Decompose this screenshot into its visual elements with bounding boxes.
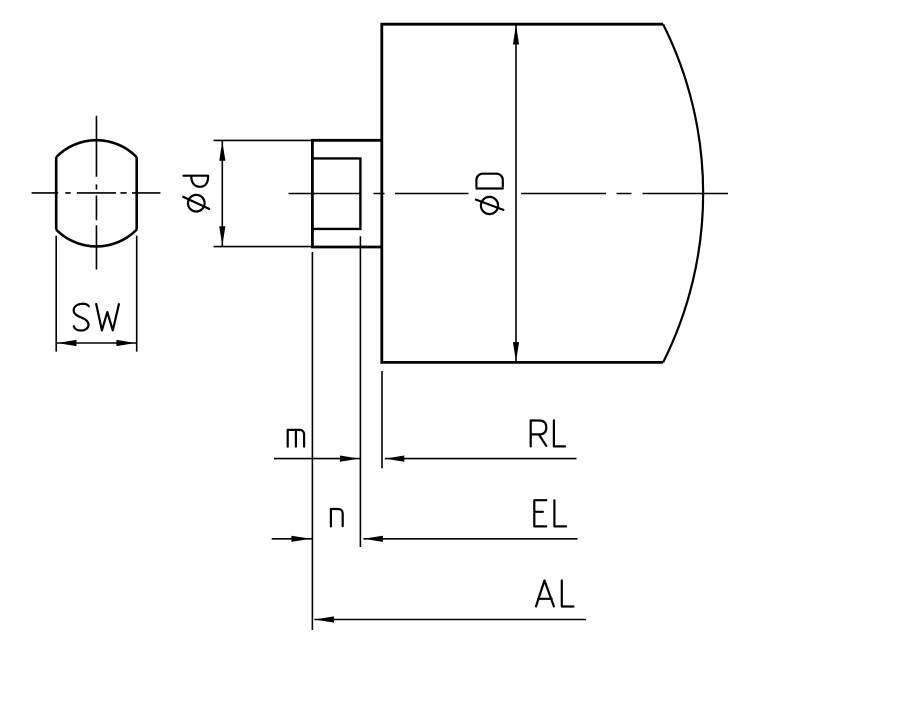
SW extension line left xyxy=(55,236,57,352)
EL arrow xyxy=(363,536,383,542)
label SW xyxy=(74,304,119,331)
dia d extension line top xyxy=(214,139,313,141)
EL dimension line xyxy=(363,538,577,540)
SW extension line right xyxy=(136,236,138,352)
extension line body face (RL/m) xyxy=(381,371,383,468)
AL arrow xyxy=(314,616,334,622)
m dimension line xyxy=(274,458,360,460)
hex end view right flat xyxy=(135,157,138,230)
SW arrow right xyxy=(116,340,135,346)
hex vertical centerline xyxy=(95,116,97,270)
hex end view top arc xyxy=(56,140,137,157)
label dia d (rotated) xyxy=(183,176,209,212)
extension line left face (AL) xyxy=(311,252,313,630)
hex horizontal centerline xyxy=(32,192,161,194)
n dimension line left xyxy=(272,538,313,540)
body outline xyxy=(382,24,663,362)
dia d arrow top xyxy=(219,141,225,161)
dia D arrow top xyxy=(513,25,519,45)
dia D arrow bottom xyxy=(513,342,519,362)
m arrow xyxy=(340,456,360,462)
dia D dimension line xyxy=(515,24,517,362)
dia d dimension line xyxy=(221,140,223,246)
AL dimension line xyxy=(314,619,586,621)
RL dimension line xyxy=(385,458,577,460)
hex end view bottom arc xyxy=(56,230,137,247)
SW arrow left xyxy=(57,340,77,346)
thread collar outline xyxy=(312,140,381,247)
RL arrow xyxy=(385,456,405,462)
extension line thread relief (EL/n) xyxy=(359,236,361,547)
hex end view left flat xyxy=(55,157,58,230)
label n xyxy=(331,509,343,526)
label m xyxy=(288,430,304,447)
label RL xyxy=(531,420,565,446)
body right arc xyxy=(663,24,703,362)
n arrow xyxy=(291,536,311,542)
thread relief rectangle xyxy=(312,158,360,229)
label dia D (rotated) xyxy=(476,174,504,214)
dia d arrow bottom xyxy=(219,226,225,246)
SW dimension line xyxy=(56,342,137,344)
main horizontal centerline xyxy=(289,193,729,195)
label AL xyxy=(536,581,574,607)
dia d extension line bottom xyxy=(214,246,313,248)
label EL xyxy=(534,500,566,526)
